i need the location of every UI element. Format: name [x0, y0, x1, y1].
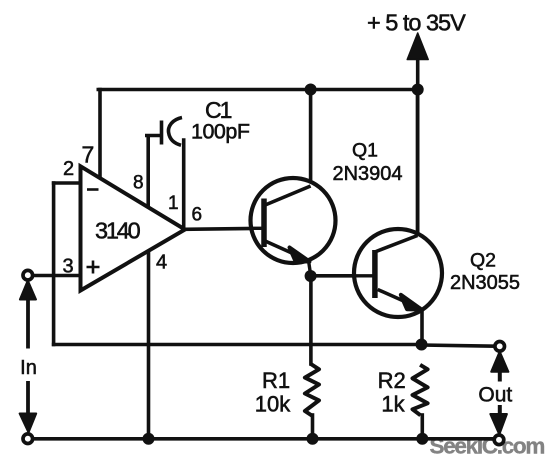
transistor Q2 base bar	[372, 250, 378, 298]
transistor Q2 base lead inside	[354, 274, 375, 277]
node junction dot (R2 / ground rail)	[416, 433, 428, 445]
svg-text:10k: 10k	[255, 392, 291, 417]
svg-text:1: 1	[168, 193, 179, 214]
wire bottom ground rail	[33, 437, 493, 441]
wire R2 bottom lead	[420, 415, 424, 439]
Out terminal top arrow (up)	[491, 352, 508, 372]
svg-text:R2: R2	[378, 368, 406, 393]
In terminal bottom arrow (down)	[20, 414, 37, 433]
wire pin2 feedback vertical	[52, 183, 56, 345]
svg-text:In: In	[20, 357, 37, 379]
Out terminal bottom circle	[494, 435, 504, 445]
wire pin2 horizontal stub	[54, 181, 81, 185]
wire feedback horizontal to Q2 emitter node	[54, 343, 422, 347]
wire pin7 drop from rail to op-amp	[98, 90, 102, 179]
Out arrow shaft lower	[498, 405, 502, 415]
op-amp minus input sign	[87, 188, 99, 191]
power arrow (+V)	[407, 33, 428, 60]
wire pin3 input	[34, 274, 81, 278]
wire Q1 emitter node to Q2 base	[311, 274, 373, 278]
wire pin8 stub to capacitor	[146, 136, 150, 207]
svg-text:3140: 3140	[95, 218, 141, 244]
wire Q2 collector vertical (to supply)	[416, 90, 420, 238]
svg-text:Out: Out	[478, 384, 512, 407]
wire node to Out terminal	[422, 345, 495, 346]
transistor Q1 emitter exit to node	[309, 261, 311, 277]
capacitor C1 right curved plate	[168, 118, 182, 146]
transistor Q2 emitter diagonal	[378, 290, 421, 309]
Out terminal top circle	[495, 342, 505, 352]
In terminal top arrow (up)	[20, 281, 36, 300]
node junction dot (R1 / ground rail)	[307, 433, 319, 445]
transistor Q1 base lead inside	[250, 227, 264, 230]
node junction dot (rail / supply)	[412, 84, 424, 96]
svg-text:Q2: Q2	[470, 250, 496, 272]
svg-text:+ 5 to 35V: + 5 to 35V	[367, 10, 466, 36]
svg-text:4: 4	[156, 252, 167, 274]
wire pin4 drop to ground rail	[147, 252, 151, 439]
node junction dot (rail / Q1 collector)	[305, 84, 317, 96]
node junction dot (Q1 emitter / Q2 base / R1)	[305, 270, 317, 282]
wire R1 bottom lead	[311, 415, 315, 439]
svg-text:7: 7	[82, 142, 95, 168]
Out terminal bottom arrow (down)	[490, 414, 507, 435]
wire capacitor right lead to pin1	[182, 140, 186, 229]
In arrow shaft lower	[26, 381, 30, 414]
svg-text:8: 8	[133, 173, 144, 194]
wire Q1 emitter node down to R1	[309, 276, 313, 364]
wire capacitor left stub	[147, 134, 160, 138]
svg-text:Q1: Q1	[352, 140, 378, 162]
resistor R1 zigzag	[305, 364, 319, 416]
resistor R2 zigzag	[413, 365, 428, 416]
svg-text:2N3904: 2N3904	[332, 163, 402, 185]
wire Q1 collector vertical	[309, 90, 313, 187]
transistor Q2 emitter arrowhead	[401, 295, 422, 310]
node junction dot (Q2 emitter / R2 / feedback / out)	[416, 339, 428, 351]
In terminal top circle	[23, 270, 33, 280]
op-amp U1 3140 triangle	[81, 166, 186, 290]
svg-text:R1: R1	[262, 368, 290, 393]
transistor Q1 emitter diagonal	[264, 241, 309, 261]
capacitor C1 left plate	[160, 121, 164, 145]
svg-text:2N3055: 2N3055	[450, 272, 520, 294]
wire power stem	[416, 52, 420, 236]
node junction dot (pin4 / ground rail)	[143, 433, 155, 445]
svg-text:3: 3	[63, 256, 74, 278]
op-amp plus input sign	[87, 261, 100, 274]
In terminal bottom circle	[23, 434, 33, 444]
transistor Q1 base bar	[261, 199, 267, 248]
svg-text:2: 2	[63, 158, 74, 180]
wire top supply rail	[98, 88, 417, 92]
wire op-amp output to Q1 base	[185, 228, 262, 229]
svg-text:1k: 1k	[381, 392, 405, 417]
Out arrow shaft upper	[498, 370, 502, 382]
transistor Q2 circle	[354, 229, 442, 317]
transistor Q2 collector diagonal	[376, 236, 418, 252]
svg-text:6: 6	[192, 205, 203, 226]
svg-text:100pF: 100pF	[191, 120, 250, 144]
In arrow shaft upper	[26, 298, 30, 349]
transistor Q1 circle	[251, 178, 336, 263]
transistor Q1 collector diagonal	[264, 186, 311, 206]
wire Q2 emitter down to node	[420, 310, 424, 345]
transistor Q1 emitter arrowhead	[290, 248, 310, 262]
